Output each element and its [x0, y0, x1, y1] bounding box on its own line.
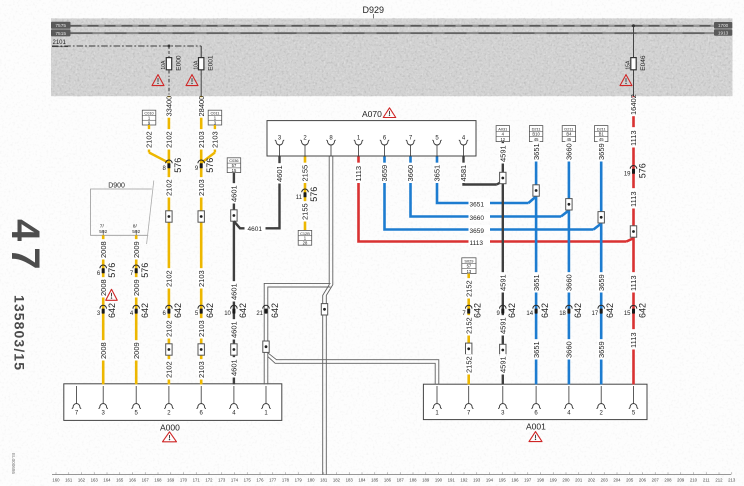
svg-text:210: 210 — [690, 478, 698, 483]
svg-text:7/: 7/ — [100, 224, 105, 230]
svg-text:21: 21 — [256, 311, 263, 317]
svg-text:2102: 2102 — [165, 270, 174, 287]
svg-text:2009: 2009 — [132, 342, 141, 359]
svg-text:188: 188 — [409, 478, 417, 483]
svg-text:576: 576 — [140, 263, 150, 278]
svg-text:4581: 4581 — [459, 165, 468, 182]
svg-text:208: 208 — [664, 478, 672, 483]
svg-text:2009: 2009 — [132, 241, 141, 258]
svg-text:194: 194 — [486, 478, 494, 483]
svg-text:D900: D900 — [108, 182, 125, 189]
svg-text:642: 642 — [605, 303, 615, 318]
svg-text:45: 45 — [567, 137, 572, 142]
svg-text:173: 173 — [218, 478, 226, 483]
svg-text:2155: 2155 — [301, 165, 310, 182]
svg-text:A001: A001 — [526, 421, 546, 431]
svg-text:576: 576 — [638, 163, 648, 178]
svg-text:190: 190 — [435, 478, 443, 483]
svg-text:4601: 4601 — [275, 165, 284, 182]
svg-text:3660: 3660 — [406, 165, 415, 182]
svg-text:10A: 10A — [193, 60, 199, 70]
svg-text:1700: 1700 — [718, 23, 729, 28]
svg-text:10A: 10A — [161, 60, 167, 70]
svg-text:185: 185 — [371, 478, 379, 483]
svg-text:642: 642 — [270, 303, 280, 318]
svg-text:3660: 3660 — [470, 215, 485, 222]
svg-text:1113: 1113 — [629, 130, 638, 146]
svg-text:3660: 3660 — [565, 274, 574, 291]
svg-text:576: 576 — [309, 187, 319, 202]
svg-text:176: 176 — [256, 478, 264, 483]
svg-text:212: 212 — [715, 478, 723, 483]
svg-text:15A: 15A — [626, 60, 632, 70]
svg-text:2102: 2102 — [165, 179, 174, 196]
svg-text:3651: 3651 — [532, 341, 541, 358]
svg-text:B1: B1 — [599, 132, 605, 137]
svg-text:15: 15 — [232, 168, 237, 173]
svg-text:E046: E046 — [640, 55, 647, 71]
svg-text:2152: 2152 — [464, 280, 473, 297]
svg-text:184: 184 — [358, 478, 366, 483]
svg-text:4601: 4601 — [230, 283, 239, 300]
svg-text:642: 642 — [540, 303, 550, 318]
svg-text:2102: 2102 — [145, 131, 154, 148]
svg-text:642: 642 — [238, 303, 248, 318]
svg-text:2103: 2103 — [197, 179, 206, 196]
svg-text:197: 197 — [524, 478, 532, 483]
svg-text:3659: 3659 — [597, 341, 606, 358]
svg-text:2103: 2103 — [197, 270, 206, 287]
svg-text:207: 207 — [652, 478, 660, 483]
svg-text:4591: 4591 — [499, 356, 508, 373]
svg-text:201: 201 — [575, 478, 583, 483]
svg-text:7575: 7575 — [55, 23, 66, 29]
svg-text:1913: 1913 — [718, 30, 729, 35]
svg-text:164: 164 — [103, 478, 111, 483]
svg-text:2103: 2103 — [211, 131, 220, 148]
svg-text:4591: 4591 — [499, 145, 508, 162]
svg-text:198: 198 — [537, 478, 545, 483]
svg-text:168: 168 — [154, 478, 162, 483]
svg-text:204: 204 — [613, 478, 621, 483]
svg-text:170: 170 — [180, 478, 188, 483]
svg-text:28400: 28400 — [197, 96, 206, 117]
svg-text:3651: 3651 — [532, 274, 541, 291]
svg-text:203: 203 — [601, 478, 609, 483]
svg-text:4591: 4591 — [499, 317, 508, 334]
svg-text:2009: 2009 — [132, 279, 141, 296]
svg-text:172: 172 — [205, 478, 213, 483]
svg-text:209: 209 — [677, 478, 685, 483]
svg-text:1113: 1113 — [470, 240, 484, 247]
svg-text:B4: B4 — [566, 132, 572, 137]
svg-text:642: 642 — [173, 303, 183, 318]
svg-text:3651: 3651 — [470, 201, 485, 208]
svg-text:163: 163 — [91, 478, 99, 483]
svg-text:2103: 2103 — [197, 131, 206, 148]
svg-text:4601: 4601 — [230, 359, 239, 376]
svg-text:642: 642 — [205, 303, 215, 318]
svg-text:191: 191 — [448, 478, 456, 483]
svg-text:A000: A000 — [160, 423, 180, 433]
svg-text:642: 642 — [473, 303, 483, 318]
svg-text:1113: 1113 — [629, 191, 638, 207]
svg-text:15: 15 — [624, 311, 631, 317]
svg-text:8/: 8/ — [133, 224, 138, 230]
svg-text:576: 576 — [205, 158, 215, 173]
svg-text:160: 160 — [52, 478, 60, 483]
svg-text:1113: 1113 — [629, 275, 638, 291]
svg-text:3660: 3660 — [565, 143, 574, 160]
svg-text:1113: 1113 — [629, 332, 638, 348]
svg-text:162: 162 — [78, 478, 86, 483]
svg-text:174: 174 — [231, 478, 239, 483]
svg-text:45: 45 — [599, 137, 604, 142]
svg-text:181: 181 — [320, 478, 328, 483]
svg-text:4601: 4601 — [230, 185, 239, 202]
svg-text:186: 186 — [384, 478, 392, 483]
svg-text:A070: A070 — [362, 109, 382, 119]
svg-text:E000: E000 — [175, 55, 182, 71]
svg-text:3651: 3651 — [532, 143, 541, 160]
svg-text:18: 18 — [559, 311, 566, 317]
svg-text:642: 642 — [107, 303, 117, 318]
svg-text:178: 178 — [282, 478, 290, 483]
svg-text:2102: 2102 — [165, 320, 174, 337]
svg-text:193: 193 — [473, 478, 481, 483]
svg-text:576: 576 — [173, 158, 183, 173]
svg-text:4591: 4591 — [499, 274, 508, 291]
svg-text:161: 161 — [65, 478, 73, 483]
svg-text:642: 642 — [140, 303, 150, 318]
svg-text:165: 165 — [116, 478, 124, 483]
svg-text:206: 206 — [639, 478, 647, 483]
svg-text:3659: 3659 — [470, 228, 485, 235]
svg-text:28: 28 — [303, 240, 308, 245]
svg-text:642: 642 — [638, 303, 648, 318]
svg-text:169: 169 — [167, 478, 175, 483]
svg-text:3659: 3659 — [597, 143, 606, 160]
svg-text:2102: 2102 — [165, 361, 174, 378]
svg-text:175: 175 — [244, 478, 252, 483]
svg-text:177: 177 — [269, 478, 277, 483]
svg-text:47: 47 — [3, 219, 47, 276]
svg-text:2103: 2103 — [197, 361, 206, 378]
svg-text:576: 576 — [107, 263, 117, 278]
svg-text:E001: E001 — [208, 55, 215, 71]
svg-text:7515: 7515 — [55, 31, 66, 37]
svg-text:171: 171 — [193, 478, 201, 483]
svg-text:3651: 3651 — [433, 165, 442, 182]
svg-text:B10: B10 — [532, 132, 540, 137]
svg-text:10: 10 — [224, 311, 231, 317]
svg-text:179: 179 — [295, 478, 303, 483]
svg-text:3659: 3659 — [597, 274, 606, 291]
svg-text:202: 202 — [588, 478, 596, 483]
svg-text:200: 200 — [562, 478, 570, 483]
svg-text:205: 205 — [626, 478, 634, 483]
svg-text:33400: 33400 — [165, 96, 174, 117]
svg-text:642: 642 — [573, 303, 583, 318]
svg-text:EL000686: EL000686 — [11, 453, 16, 474]
svg-text:2008: 2008 — [99, 279, 108, 296]
svg-text:11: 11 — [296, 195, 303, 201]
svg-text:2101: 2101 — [53, 40, 67, 46]
svg-text:192: 192 — [460, 478, 468, 483]
svg-text:2155: 2155 — [301, 203, 310, 220]
svg-text:2102: 2102 — [165, 131, 174, 148]
svg-text:166: 166 — [129, 478, 137, 483]
svg-text:183: 183 — [346, 478, 354, 483]
svg-text:2008: 2008 — [99, 342, 108, 359]
svg-text:182: 182 — [333, 478, 341, 483]
svg-text:D929: D929 — [363, 5, 385, 15]
svg-text:2152: 2152 — [464, 317, 473, 334]
svg-text:167: 167 — [142, 478, 150, 483]
svg-text:135803/15: 135803/15 — [12, 295, 28, 371]
svg-text:3660: 3660 — [565, 341, 574, 358]
svg-text:213: 213 — [728, 478, 736, 483]
svg-text:1113: 1113 — [354, 166, 363, 182]
svg-text:2008: 2008 — [99, 241, 108, 258]
svg-text:16402: 16402 — [629, 94, 638, 115]
svg-text:13: 13 — [467, 269, 472, 274]
svg-text:195: 195 — [499, 478, 507, 483]
svg-text:12: 12 — [500, 137, 505, 142]
svg-text:180: 180 — [307, 478, 315, 483]
svg-text:211: 211 — [703, 478, 710, 483]
svg-text:196: 196 — [511, 478, 519, 483]
svg-text:2103: 2103 — [197, 320, 206, 337]
svg-text:14: 14 — [526, 311, 533, 317]
svg-text:199: 199 — [550, 478, 558, 483]
svg-text:4601: 4601 — [230, 321, 239, 338]
svg-text:187: 187 — [397, 478, 405, 483]
svg-text:4601: 4601 — [248, 226, 263, 233]
svg-text:642: 642 — [507, 303, 517, 318]
svg-text:2152: 2152 — [464, 356, 473, 373]
svg-text:19: 19 — [624, 171, 631, 177]
svg-text:45: 45 — [534, 137, 539, 142]
svg-text:189: 189 — [422, 478, 430, 483]
svg-text:17: 17 — [592, 311, 599, 317]
svg-text:3659: 3659 — [380, 165, 389, 182]
